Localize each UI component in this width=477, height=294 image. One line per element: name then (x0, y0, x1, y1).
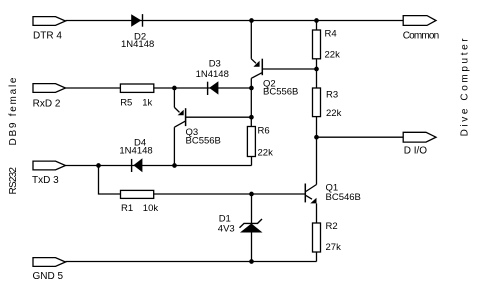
wire RxD node to Q2 collector (154, 87, 252, 89)
resistor R5 (120, 84, 153, 92)
transistor Q1 (305, 184, 316, 204)
svg-text:RxD 2: RxD 2 (33, 99, 61, 110)
connector DTR 4 (33, 17, 66, 26)
diode D3 (208, 81, 219, 95)
wire D1 vertical (251, 194, 253, 262)
wire Q3 collector vertical (173, 127, 175, 165)
wire D I/O line (317, 136, 404, 138)
svg-text:1k: 1k (142, 98, 152, 109)
node dot TxD/R1 (96, 163, 101, 168)
wire TxD rail (66, 165, 252, 167)
node dot Q3 base/R6 (249, 115, 254, 120)
wire Q1 emitter to R2 (316, 203, 318, 223)
node dot Q2 base/R4/R3 (314, 67, 319, 72)
svg-text:22k: 22k (325, 49, 341, 60)
wire Q3 base line (186, 116, 252, 118)
wire R1 base line (99, 166, 306, 195)
svg-text:BC546B: BC546B (326, 192, 361, 203)
svg-text:R5: R5 (120, 98, 132, 109)
svg-text:TxD 3: TxD 3 (32, 175, 59, 186)
connector GND 5 (33, 258, 66, 267)
svg-text:BC556B: BC556B (186, 136, 221, 147)
wire Q2 collector to R6 top (250, 78, 252, 126)
svg-text:4V3: 4V3 (218, 224, 235, 235)
wire right rail top (316, 21, 318, 31)
wire R3 to Q1 collector (316, 117, 318, 185)
svg-text:22k: 22k (326, 108, 342, 119)
resistor R2 (313, 223, 321, 252)
wire R6 bottom to TxD corner (251, 157, 253, 166)
svg-text:Common: Common (403, 31, 440, 42)
svg-text:R2: R2 (326, 221, 338, 232)
node dot R1/D1/Q1 base (249, 192, 254, 197)
svg-text:1N4148: 1N4148 (119, 146, 152, 157)
wire Q2 emitter vertical (250, 21, 252, 59)
wire GND rail (66, 261, 317, 263)
svg-text:D1: D1 (219, 213, 231, 224)
svg-text:1N4148: 1N4148 (121, 39, 154, 50)
transistor Q2 (251, 59, 262, 79)
connector RxD 2 (33, 84, 66, 93)
connector D I/O (403, 132, 436, 142)
node dot RxD/Q2 collector (249, 86, 254, 91)
svg-text:Dive Computer: Dive Computer (459, 38, 470, 137)
transistor Q3 (174, 107, 185, 127)
node dot DTR/R4 (314, 18, 319, 23)
zener diode D1 (240, 219, 263, 233)
wire R2 to GND (316, 252, 318, 262)
node dot R3/D I/O (314, 135, 319, 140)
resistor R3 (313, 88, 321, 117)
svg-text:R3: R3 (326, 90, 338, 101)
svg-text:1N4148: 1N4148 (196, 69, 229, 80)
node dot RxD/Q3 emitter (172, 86, 177, 91)
wire Q3 emitter vertical (173, 88, 175, 107)
svg-text:R1: R1 (121, 203, 133, 214)
svg-text:RS232: RS232 (8, 167, 19, 195)
svg-text:27k: 27k (326, 242, 342, 253)
svg-text:10k: 10k (143, 203, 159, 214)
svg-text:D3: D3 (209, 59, 221, 70)
wire Q2 base line (262, 68, 316, 70)
svg-text:R6: R6 (258, 126, 270, 137)
diode D4 (132, 158, 143, 172)
svg-text:D I/O: D I/O (404, 146, 428, 157)
connector TxD 3 (33, 161, 66, 170)
node dot GND/D1 (249, 259, 254, 264)
svg-text:R4: R4 (325, 28, 337, 39)
svg-text:BC556B: BC556B (263, 86, 298, 97)
wire R4 to R3 (316, 59, 318, 88)
svg-text:22k: 22k (258, 148, 274, 159)
node dot DTR/Q2 (249, 18, 254, 23)
svg-text:GND 5: GND 5 (33, 271, 64, 282)
wire RxD rail left (66, 87, 121, 89)
svg-text:DTR 4: DTR 4 (33, 31, 62, 42)
node dot TxD/Q3 collector (172, 163, 177, 168)
connector Common (403, 16, 436, 26)
svg-text:DB9 female: DB9 female (8, 77, 19, 145)
wire DTR rail (66, 20, 404, 22)
resistor R4 (313, 30, 321, 59)
diode D2 (131, 14, 142, 27)
resistor R1 (121, 190, 154, 198)
resistor R6 (247, 127, 255, 157)
